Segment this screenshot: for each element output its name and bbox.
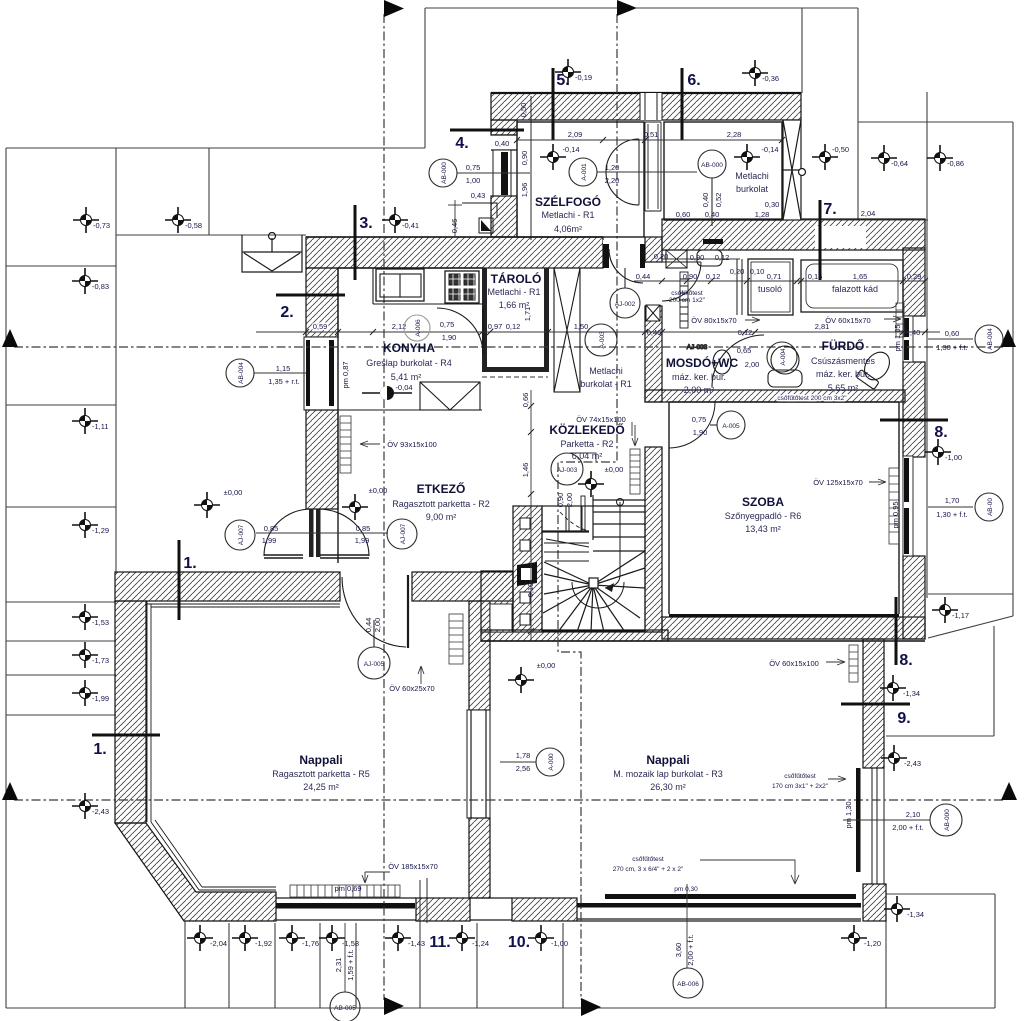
shaft room NE with X brace (783, 120, 806, 220)
svg-text:0,60: 0,60 (676, 210, 691, 219)
ref circle AJ-005 nappali door (358, 620, 390, 679)
radiators (290, 303, 904, 897)
svg-text:AB-00: AB-00 (987, 498, 994, 516)
szelfogo east doorway frame (645, 122, 661, 211)
elevation marker -1,73 (72, 642, 98, 668)
ref circle AJ-007 left (225, 520, 255, 550)
ref circle AB-004 west window (226, 359, 254, 387)
svg-text:0,46: 0,46 (647, 328, 662, 337)
svg-text:0,85: 0,85 (264, 524, 279, 533)
etkezo double door (264, 509, 369, 558)
svg-text:4.: 4. (455, 135, 468, 152)
svg-text:1,90: 1,90 (693, 428, 708, 437)
svg-text:csőfűtőtest: csőfűtőtest (632, 856, 664, 863)
ref circle AB-00 szoba window (975, 493, 1003, 521)
svg-text:1,59 + f.t.: 1,59 + f.t. (346, 949, 355, 980)
svg-text:0,90: 0,90 (556, 493, 565, 508)
nappali door AJ005 (407, 575, 409, 648)
ref circle A-004 furdo (767, 342, 797, 372)
szelfogo double door east (606, 139, 639, 205)
svg-text:0,29: 0,29 (907, 272, 922, 281)
svg-text:0,30: 0,30 (765, 200, 780, 209)
svg-text:TÁROLÓ: TÁROLÓ (491, 271, 542, 286)
svg-text:Nappali: Nappali (646, 753, 689, 767)
svg-text:±0,00: ±0,00 (224, 488, 243, 497)
svg-text:Metlachi - R1: Metlachi - R1 (487, 287, 540, 297)
svg-text:-1,58: -1,58 (342, 939, 359, 948)
awning symbol (242, 233, 302, 273)
elevation marker -1,34 bottom right (884, 896, 910, 922)
svg-text:0,10: 0,10 (526, 583, 535, 598)
tarolo closet X (554, 268, 580, 392)
wc in mosdo (713, 350, 731, 374)
svg-text:-1,11: -1,11 (92, 422, 109, 431)
svg-text:ÖV 74x15x100: ÖV 74x15x100 (576, 415, 626, 424)
svg-text:ÖV 125x15x70: ÖV 125x15x70 (813, 478, 863, 487)
szoba room (669, 402, 899, 614)
radiator OV 60x15x70 furdo (896, 303, 904, 337)
niche (490, 604, 512, 632)
reference circles (225, 150, 1003, 1021)
stair walking line (605, 502, 620, 588)
svg-text:2,28: 2,28 (727, 130, 742, 139)
svg-text:0,97: 0,97 (488, 322, 503, 331)
elevation marker -1,29 (72, 512, 98, 538)
svg-text:pm 0,95: pm 0,95 (891, 501, 900, 528)
svg-text:1.: 1. (93, 741, 106, 758)
ref circle A-006 konyha (404, 315, 430, 341)
svg-text:-0,83: -0,83 (92, 282, 109, 291)
svg-text:1,99: 1,99 (262, 536, 277, 545)
svg-text:-1,43: -1,43 (408, 939, 425, 948)
svg-text:2.: 2. (280, 304, 293, 321)
elevation marker -0,64 (871, 145, 897, 171)
svg-text:0,59: 0,59 (313, 322, 328, 331)
interiors (242, 122, 904, 899)
svg-text:A-001: A-001 (581, 163, 588, 181)
svg-text:-0,14: -0,14 (562, 145, 579, 154)
svg-text:0,65: 0,65 (737, 346, 752, 355)
svg-text:-1,99: -1,99 (92, 694, 109, 703)
konyha counter front (373, 268, 482, 304)
svg-text:KÖZLEKEDŐ: KÖZLEKEDŐ (549, 422, 624, 437)
svg-text:2,04: 2,04 (861, 209, 876, 218)
svg-text:csőfűtőtest: csőfűtőtest (671, 290, 703, 297)
svg-text:MOSDÓ+WC: MOSDÓ+WC (666, 355, 739, 370)
svg-text:0,50: 0,50 (519, 103, 528, 118)
sink (376, 269, 424, 301)
svg-text:pm 0,30: pm 0,30 (674, 886, 698, 893)
svg-text:-1,00: -1,00 (945, 453, 962, 462)
insulation squares (520, 518, 530, 625)
svg-text:falazott kád: falazott kád (832, 284, 878, 294)
bottom band szoba (662, 617, 925, 639)
svg-text:7.: 7. (823, 201, 836, 218)
door gap szelfogo-kozlekedo (603, 240, 645, 268)
svg-text:1,20: 1,20 (605, 163, 620, 172)
heating pipe bottom right (605, 894, 856, 899)
svg-text:-0,58: -0,58 (185, 221, 202, 230)
svg-text:0,90: 0,90 (520, 151, 529, 166)
level pm left (194, 492, 220, 518)
svg-text:1,35 + r.t.: 1,35 + r.t. (268, 377, 299, 386)
level nappali2 (508, 667, 534, 693)
svg-text:-0,86: -0,86 (947, 159, 964, 168)
elevation marker -1,17 (932, 597, 958, 623)
svg-text:9.: 9. (897, 710, 910, 727)
svg-text:Parketta - R2: Parketta - R2 (560, 439, 613, 449)
svg-text:AB-004: AB-004 (238, 362, 245, 384)
wall top band north (491, 93, 801, 120)
svg-text:8.: 8. (899, 652, 912, 669)
svg-text:2,00: 2,00 (745, 360, 760, 369)
svg-text:AJ-007: AJ-007 (238, 524, 245, 545)
szelfogo room (517, 122, 644, 237)
svg-text:AB-006: AB-006 (677, 981, 699, 988)
svg-text:0,40: 0,40 (495, 139, 510, 148)
wall etkezo east (469, 601, 490, 710)
ref circle AB-004 furdo window (975, 325, 1003, 353)
wall block etkezo SE (481, 571, 513, 632)
svg-text:1,90: 1,90 (442, 333, 457, 342)
tusolo (748, 259, 793, 315)
svg-text:-1,24: -1,24 (472, 939, 489, 948)
svg-text:AB-000: AB-000 (701, 162, 723, 169)
radiator OV 93x15x100 etkezo (340, 416, 351, 473)
dining table (420, 382, 480, 410)
svg-text:1,50: 1,50 (574, 322, 589, 331)
svg-text:0,51: 0,51 (644, 130, 659, 139)
nappali2 east window (872, 768, 884, 884)
wall sill etkezo east lower (469, 818, 490, 898)
svg-text:A-005: A-005 (722, 423, 740, 430)
ref circle A-000 nappali2 (536, 748, 564, 776)
svg-text:13,43 m²: 13,43 m² (745, 524, 781, 534)
elevation marker -1,00 right (925, 439, 951, 465)
svg-text:-0,41: -0,41 (402, 221, 419, 230)
svg-text:1,28: 1,28 (755, 210, 770, 219)
level pm etkezo (342, 494, 368, 520)
wall nappali north band right piece (412, 572, 513, 601)
svg-text:KONYHA: KONYHA (383, 341, 435, 355)
svg-text:1,00: 1,00 (466, 176, 481, 185)
mosdo radiator (680, 272, 688, 328)
svg-text:ÖV 80x15x70: ÖV 80x15x70 (691, 316, 736, 325)
window szelfogo west (493, 150, 511, 196)
elevation marker -0,50 (812, 144, 838, 170)
svg-text:2,00: 2,00 (565, 493, 574, 508)
elevation marker -0,36 (742, 60, 768, 86)
svg-text:1,70: 1,70 (945, 496, 960, 505)
svg-text:Nappali: Nappali (299, 753, 342, 767)
elevation marker -0,41 (382, 207, 408, 233)
svg-text:Metlachi - R1: Metlachi - R1 (541, 210, 594, 220)
szoba door (669, 402, 715, 448)
svg-text:máz. ker. bur.: máz. ker. bur. (672, 372, 726, 382)
svg-text:csőfűtőtest: csőfűtőtest (784, 773, 816, 780)
svg-text:pm 0,69: pm 0,69 (334, 884, 361, 893)
furdo sink (771, 346, 799, 374)
svg-text:-0,04: -0,04 (395, 383, 412, 392)
radiator OV 185x15x70 nappali1 south (290, 885, 400, 897)
svg-text:3,60: 3,60 (674, 943, 683, 958)
kad (801, 260, 903, 312)
bath east window1 (903, 316, 913, 362)
svg-text:1,71: 1,71 (523, 307, 532, 322)
svg-text:0,10: 0,10 (750, 267, 765, 276)
svg-text:-0,73: -0,73 (93, 221, 110, 230)
stair west wall (513, 506, 542, 632)
wall nappali north band left (115, 572, 340, 601)
svg-text:A-006: A-006 (415, 319, 422, 337)
ref circle AB-005 bottom (330, 992, 360, 1021)
svg-text:-2,04: -2,04 (210, 939, 227, 948)
dimension lines (254, 137, 973, 992)
ref circle A-003 (585, 324, 617, 356)
svg-text:2,81: 2,81 (815, 322, 830, 331)
mosdo fixtures (666, 250, 687, 268)
svg-text:AB-004: AB-004 (987, 328, 994, 350)
door szelfogo south (609, 249, 643, 283)
svg-text:5,41 m²: 5,41 m² (391, 372, 422, 382)
svg-text:0,46: 0,46 (450, 219, 459, 234)
radiator OV 125x15x70 szoba (889, 468, 899, 544)
svg-text:Csúszásmentes: Csúszásmentes (811, 356, 876, 366)
svg-text:AJ-007: AJ-007 (400, 523, 407, 544)
wall west vertical etkezo lower (306, 410, 338, 509)
leader arrows for radiators (360, 441, 380, 447)
svg-text:-1,20: -1,20 (864, 939, 881, 948)
svg-text:2,10: 2,10 (906, 810, 921, 819)
svg-text:2,09: 2,09 (568, 130, 583, 139)
mosdo west wall bottom (645, 306, 662, 402)
svg-text:1,65: 1,65 (853, 272, 868, 281)
svg-text:Metlachi: Metlachi (589, 366, 623, 376)
wall nappali west (115, 601, 146, 823)
svg-text:Ragasztott parketta - R5: Ragasztott parketta - R5 (272, 769, 370, 779)
elevation marker -1,11 (72, 408, 98, 434)
svg-text:Ragasztott parketta - R2: Ragasztott parketta - R2 (392, 499, 490, 509)
svg-text:±0,00: ±0,00 (369, 486, 388, 495)
svg-text:-1,34: -1,34 (903, 689, 920, 698)
nappali2 east wall (863, 639, 884, 768)
svg-text:0,44: 0,44 (636, 272, 651, 281)
konyha/etkezo inner boundary (338, 268, 482, 563)
svg-text:-2,43: -2,43 (904, 759, 921, 768)
svg-text:pm 1,05: pm 1,05 (893, 324, 902, 351)
svg-text:0,20: 0,20 (654, 252, 669, 261)
elevation marker +0,14 szelfogo (540, 144, 566, 170)
svg-text:0,52: 0,52 (714, 193, 723, 208)
svg-text:±0,00: ±0,00 (537, 661, 556, 670)
tarolo partition walls (black) (482, 268, 549, 372)
svg-text:burkolat: burkolat (736, 184, 769, 194)
svg-text:máz. ker. bur.: máz. ker. bur. (816, 369, 870, 379)
elevation marker -2,43 (9.) (881, 745, 907, 771)
ref circle A-001 szelfogo (569, 158, 597, 186)
svg-text:Szőnyegpadló - R6: Szőnyegpadló - R6 (725, 511, 802, 521)
svg-text:AB-000: AB-000 (441, 162, 448, 184)
szelfogo inner step lines NW (462, 203, 497, 233)
level leader lines (570, 453, 596, 462)
svg-text:0,43: 0,43 (471, 191, 486, 200)
dim ticks (303, 137, 928, 634)
ref circle AB-000 NE room (698, 150, 726, 226)
svg-text:2,00 + f.t.: 2,00 + f.t. (892, 823, 923, 832)
ref circle AB-000 north (429, 159, 457, 187)
svg-text:-0,14: -0,14 (761, 145, 778, 154)
furdo wc (856, 347, 895, 389)
konyha door from tarolo (437, 308, 483, 354)
svg-text:-0,64: -0,64 (891, 159, 908, 168)
svg-text:0,75: 0,75 (692, 415, 707, 424)
szoba east window (903, 456, 913, 556)
wall szelfogo west pier lower (491, 196, 517, 237)
svg-text:M. mozaik lap burkolat - R3: M. mozaik lap burkolat - R3 (613, 769, 723, 779)
bottom row elevations (187, 925, 213, 951)
markers: section ticks (92, 68, 948, 735)
ref circle AB-006 bottom (673, 968, 703, 998)
chimney black (517, 562, 537, 586)
svg-text:FÜRDŐ: FÜRDŐ (822, 338, 865, 353)
radiator OV 74x15x100 kozlekedo (630, 449, 640, 494)
svg-text:3.: 3. (359, 215, 372, 232)
mosdo door (662, 262, 701, 301)
svg-text:AB-005: AB-005 (334, 1005, 356, 1012)
wall szelfogo west pier upper (491, 120, 517, 135)
svg-text:24,25 m²: 24,25 m² (303, 782, 339, 792)
svg-text:170 cm 3x1" + 2x2": 170 cm 3x1" + 2x2" (772, 783, 829, 790)
svg-text:AJ-003: AJ-003 (557, 467, 578, 474)
elevation marker -0,86 (927, 145, 953, 171)
stove (445, 271, 479, 303)
svg-text:-0,50: -0,50 (832, 145, 849, 154)
svg-text:AJ-002: AJ-002 (615, 301, 636, 308)
svg-text:AB-000: AB-000 (944, 809, 951, 831)
svg-text:10.: 10. (508, 934, 530, 951)
inner face lines nappali (147, 601, 340, 890)
svg-text:pm 1,30: pm 1,30 (844, 801, 853, 828)
svg-text:0,85: 0,85 (356, 524, 371, 533)
svg-text:ÖV 60x15x100: ÖV 60x15x100 (769, 659, 819, 668)
mosdo-furdo separating wall (737, 259, 742, 315)
svg-text:-1,53: -1,53 (92, 618, 109, 627)
bath east wall segs (903, 248, 925, 316)
ref circle AJ-002 (610, 268, 640, 318)
svg-text:tusoló: tusoló (758, 284, 782, 294)
svg-text:200 cm 1x2": 200 cm 1x2" (669, 297, 706, 304)
svg-text:0,20: 0,20 (730, 267, 745, 276)
svg-text:0,44: 0,44 (364, 618, 373, 633)
svg-text:A-004: A-004 (780, 348, 787, 366)
mosdo north band (662, 219, 925, 250)
level kozlekedo (578, 471, 604, 497)
hidden dashed line tarolo (482, 376, 548, 378)
elevation marker -1,34 (8.) (880, 675, 906, 701)
konyha south line (338, 409, 482, 411)
svg-text:-1,17: -1,17 (952, 611, 969, 620)
svg-text:-1,34: -1,34 (907, 910, 924, 919)
svg-text:0,12: 0,12 (715, 253, 730, 262)
svg-text:-1,92: -1,92 (255, 939, 272, 948)
radiator OV 60x25x70 nappali1 (449, 614, 463, 664)
ref circle AJ-003 kozlekedo (551, 453, 583, 485)
svg-text:-1,29: -1,29 (92, 526, 109, 535)
svg-text:0,71: 0,71 (767, 272, 782, 281)
svg-text:-0,36: -0,36 (762, 74, 779, 83)
kozlekedo-stair door leaf (581, 496, 585, 531)
svg-text:11.: 11. (429, 934, 450, 951)
svg-text:270 cm, 3 x 6/4" + 2 x 2": 270 cm, 3 x 6/4" + 2 x 2" (613, 866, 684, 873)
shaft box (646, 305, 660, 321)
window gap in top band (640, 93, 662, 120)
svg-text:ÖV 60x15x70: ÖV 60x15x70 (825, 316, 870, 325)
elevation marker +0,14 ne room (734, 144, 760, 170)
svg-text:SZOBA: SZOBA (742, 495, 784, 509)
svg-text:1,46: 1,46 (521, 463, 530, 478)
kozlekedo leader (631, 422, 633, 436)
svg-text:ÖV 185x15x70: ÖV 185x15x70 (388, 862, 438, 871)
rotated dims (334, 103, 902, 981)
svg-text:26,30 m²: 26,30 m² (650, 782, 686, 792)
svg-text:0,90: 0,90 (690, 253, 705, 262)
bottom band stairs (481, 630, 668, 641)
svg-text:1,15: 1,15 (276, 364, 291, 373)
svg-text:1,30 + f.t.: 1,30 + f.t. (936, 510, 967, 519)
svg-text:burkolat - R1: burkolat - R1 (580, 379, 632, 389)
svg-text:Metlachi: Metlachi (735, 171, 769, 181)
svg-text:-1,73: -1,73 (92, 656, 109, 665)
svg-text:6.: 6. (687, 72, 700, 89)
furdo door (712, 335, 764, 387)
svg-text:A-003: A-003 (599, 331, 606, 349)
radiator OV 60x15x100 nappali2 (849, 645, 858, 682)
svg-text:0,75: 0,75 (440, 320, 455, 329)
elevation marker -0,58 (165, 207, 191, 233)
svg-text:2,31: 2,31 (334, 958, 343, 973)
mosdo/furdo south band (645, 390, 905, 402)
elevation marker -0,83 (72, 268, 98, 294)
elevation marker -2,43 left (72, 793, 98, 819)
stair east wall (645, 447, 662, 632)
ref circle AB-000 east window (930, 804, 962, 836)
svg-text:AJ-005: AJ-005 (364, 661, 385, 668)
svg-text:9,00 m²: 9,00 m² (426, 512, 457, 522)
svg-text:pm 0,87: pm 0,87 (341, 361, 350, 388)
bottom band: window1 (276, 898, 416, 920)
ref circle AJ-007 right (387, 519, 417, 549)
svg-text:0,40: 0,40 (701, 193, 710, 208)
svg-text:-2,43: -2,43 (92, 807, 109, 816)
elevation marker -0,19 (555, 59, 581, 85)
svg-text:2,56: 2,56 (516, 764, 531, 773)
svg-text:Greslap burkolat - R4: Greslap burkolat - R4 (366, 358, 452, 368)
walls layer (115, 93, 925, 921)
stairs (542, 495, 645, 632)
svg-text:1,40: 1,40 (906, 328, 921, 337)
room metlachi NE (664, 122, 782, 220)
wall band tarolo/konyha north (306, 237, 603, 268)
dim face line szelfogo west (530, 96, 532, 240)
elevation marker konyha -0,04 (362, 386, 412, 400)
elevation marker -1,20 (841, 925, 867, 951)
svg-text:-1,00: -1,00 (551, 939, 568, 948)
ref circle A-005 szoba door (710, 411, 745, 439)
svg-text:2,00 m²: 2,00 m² (684, 385, 715, 395)
svg-text:-0,19: -0,19 (575, 73, 592, 82)
svg-text:1,78: 1,78 (516, 751, 531, 760)
svg-text:1,96: 1,96 (520, 183, 529, 198)
